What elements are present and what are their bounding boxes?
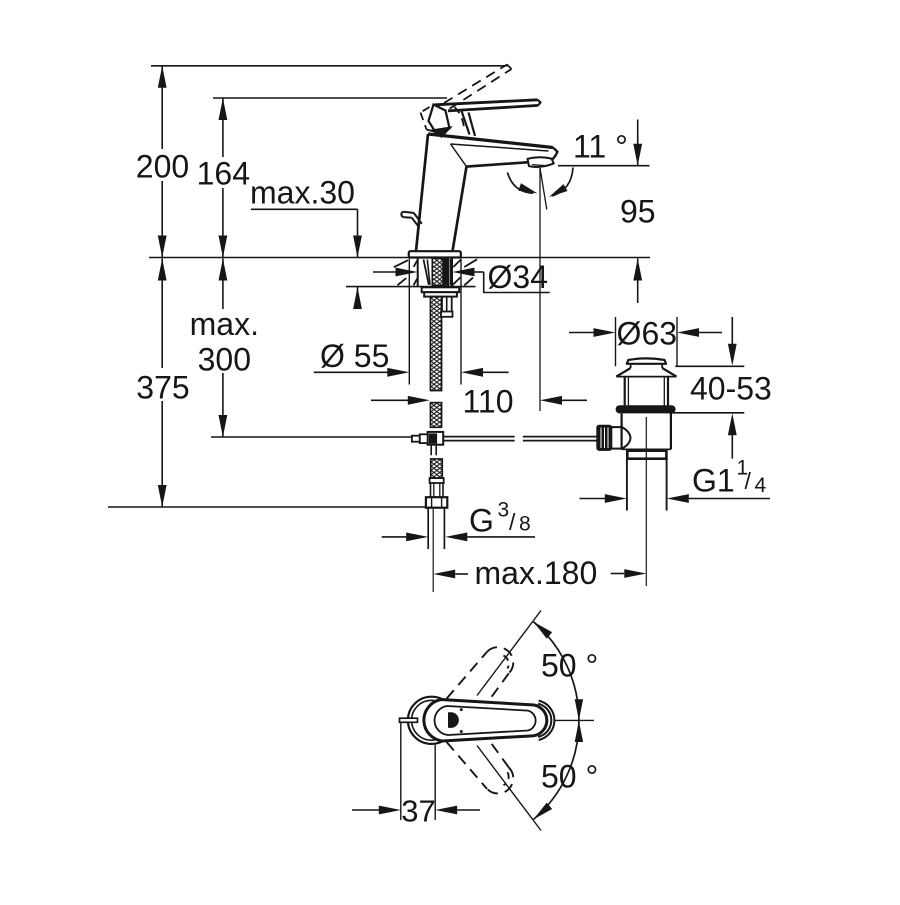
arrow 200 bottom <box>158 236 167 258</box>
arrow max.30 down <box>353 236 362 258</box>
reference line max.300 bottom <box>211 436 412 438</box>
dimension dia55 line <box>314 371 389 373</box>
shank braided hose <box>432 258 443 285</box>
faucet spout top edge <box>428 134 553 148</box>
topview lever tip outer rings <box>538 704 551 737</box>
topview centerline <box>554 719 595 721</box>
hose connector band <box>430 478 444 483</box>
rod tee left attach <box>420 434 428 443</box>
arrow bowtie upper <box>575 699 583 720</box>
dimension G114 left <box>580 498 606 500</box>
arrow max.300 bottom <box>219 415 228 437</box>
drain collar <box>627 451 666 459</box>
svg-text:50 °: 50 ° <box>541 759 598 795</box>
dimension 11deg vertical <box>637 120 639 166</box>
svg-text:4: 4 <box>755 474 767 497</box>
drain cap <box>627 358 666 363</box>
dimension line 375 vertical <box>161 259 163 369</box>
dimension max180 right <box>611 573 625 575</box>
dimension 164 top reference line <box>213 97 447 99</box>
arrow arc upper <box>534 622 553 639</box>
dimension line max.300 vertical <box>222 259 224 310</box>
dimension dia63 right <box>677 328 699 337</box>
arrow 375 top <box>158 259 167 281</box>
svg-text:110: 110 <box>462 383 513 419</box>
aerator <box>528 157 554 167</box>
dimension 95 tail <box>637 259 639 304</box>
deck top line <box>149 257 650 259</box>
handle lever tip <box>538 100 541 106</box>
dimension 200 top reference line <box>151 65 507 67</box>
dimension line 164 vertical <box>222 98 224 157</box>
svg-text:3: 3 <box>498 499 510 522</box>
dia34 leader corner <box>484 272 550 293</box>
tee lower stem <box>430 445 432 456</box>
handle boss dark wedge <box>432 127 451 137</box>
rod tee body <box>428 432 444 445</box>
37 leader lines <box>400 723 402 821</box>
svg-text:max.30: max.30 <box>250 175 355 211</box>
arrow bowtie lower <box>575 721 583 742</box>
water stream tilted line <box>540 168 547 210</box>
dimension dia34 right <box>453 268 475 277</box>
svg-text:max.: max. <box>190 306 259 342</box>
svg-text:50 °: 50 ° <box>541 647 598 683</box>
supply pipe <box>427 508 429 549</box>
arrow dia55 right-in <box>387 368 409 377</box>
arrow 11deg down <box>633 144 642 166</box>
svg-text:200: 200 <box>136 149 189 185</box>
dimension max180 left <box>433 570 455 579</box>
ray 50 down <box>477 746 541 831</box>
topview dots <box>460 708 463 711</box>
dimension line 200 vertical <box>161 66 163 149</box>
svg-text:37: 37 <box>401 793 435 828</box>
water stream line <box>539 168 541 411</box>
topview D mark <box>449 713 459 728</box>
pop-up rod <box>443 436 514 438</box>
pop-up rod knob <box>401 212 403 217</box>
ray 50 up <box>477 611 541 696</box>
svg-text:/: / <box>509 509 516 535</box>
swivel arc right <box>552 168 573 197</box>
mounting nut <box>422 287 460 292</box>
handle neck <box>462 111 470 135</box>
hose nut G3/8 <box>426 497 447 508</box>
supply pipe centerline <box>432 508 434 592</box>
dimension 11deg line <box>558 165 650 167</box>
deck section hatching <box>394 260 408 267</box>
dimension G38 right <box>445 533 467 542</box>
faucet spout inner line <box>451 144 549 151</box>
rod link piece <box>611 427 622 449</box>
arrow 40-53 down <box>728 344 737 366</box>
dia63 leader lines <box>615 317 617 366</box>
shank wedge <box>424 260 429 285</box>
faucet body right edge <box>453 167 467 252</box>
handle boss <box>429 105 450 131</box>
faucet spout tip <box>552 148 558 161</box>
arrow 375 bottom <box>158 485 167 507</box>
dimension 40-53 verticals <box>731 317 733 345</box>
topview pin <box>400 718 418 722</box>
topview dashed lever up <box>447 652 488 699</box>
reference line 375 bottom <box>108 506 426 508</box>
drain neck <box>624 377 626 406</box>
drain o-ring seal <box>616 405 676 413</box>
handle lever underside <box>448 105 538 111</box>
arc 50 lower <box>534 721 579 819</box>
drain flange cone <box>630 364 632 368</box>
dimension 40-53 refs <box>675 365 744 367</box>
svg-text:300: 300 <box>198 341 251 377</box>
handle raised dashed blade <box>444 65 507 104</box>
arc 50 upper <box>534 622 579 720</box>
dimension 37 left <box>352 809 380 811</box>
svg-text:/: / <box>745 468 752 494</box>
svg-text:max.180: max.180 <box>475 555 598 591</box>
arrow 40-53 up <box>728 413 737 435</box>
swivel arc left arrowhead <box>518 183 537 193</box>
dimension 110 left <box>371 399 409 401</box>
pop-up rod guide tube <box>441 297 443 312</box>
handle raised dashed boss <box>421 107 430 113</box>
arrow max.300 top <box>219 259 228 281</box>
arrow dia55 left-in <box>461 368 483 377</box>
svg-text:Ø 55: Ø 55 <box>320 338 389 374</box>
svg-text:G: G <box>469 503 494 539</box>
topview dashed lever down <box>447 742 488 789</box>
arrow 95 up <box>633 259 642 281</box>
dimension G38 left <box>382 536 408 538</box>
dimension max.30 leader <box>251 208 358 210</box>
dimension dia34 left <box>373 271 397 273</box>
svg-text:G1: G1 <box>692 463 735 499</box>
svg-text:40-53: 40-53 <box>690 370 772 406</box>
svg-text:Ø63: Ø63 <box>617 316 677 352</box>
svg-text:11 °: 11 ° <box>573 129 628 165</box>
svg-text:8: 8 <box>519 513 531 536</box>
shank outer walls <box>417 258 419 288</box>
topview lever outer <box>424 700 547 742</box>
drain tailpipe <box>626 459 628 511</box>
arrow max.30 up <box>353 287 362 309</box>
hose connector ribs <box>431 483 444 497</box>
drain body <box>620 413 622 449</box>
dimension 37 right <box>435 806 457 815</box>
rod knurled knob <box>597 426 611 450</box>
faucet base plate <box>409 251 461 257</box>
hose braided upper <box>430 297 441 391</box>
swivel arc right arrowhead <box>549 184 568 197</box>
dia55 leader lines <box>408 259 410 385</box>
faucet body left edge <box>416 134 428 251</box>
shank dark bar <box>444 259 449 285</box>
dimension dia63 left <box>569 332 595 334</box>
arrow 200 top <box>158 66 167 88</box>
arrow 164 top <box>219 98 228 120</box>
rod tee left cap <box>412 436 420 442</box>
hose braided lower <box>431 459 443 478</box>
svg-text:Ø34: Ø34 <box>488 259 548 295</box>
topview lever inner <box>435 706 536 735</box>
arrow arc lower <box>534 803 553 820</box>
dimension 110 right <box>540 396 562 405</box>
topview escutcheon circle <box>408 697 455 744</box>
deck bottom line <box>346 286 476 288</box>
faucet spout bottom edge <box>467 161 552 167</box>
svg-text:95: 95 <box>620 193 656 229</box>
svg-text:164: 164 <box>197 156 250 192</box>
dimension G114 right <box>667 494 689 503</box>
rod tee dark insert <box>429 434 436 443</box>
drain centerline <box>645 417 647 586</box>
handle lever top edge <box>435 100 538 105</box>
hose braided mid <box>430 403 441 428</box>
swivel arc left <box>508 173 534 194</box>
svg-text:375: 375 <box>136 369 189 405</box>
arrow 164 bottom <box>219 236 228 258</box>
